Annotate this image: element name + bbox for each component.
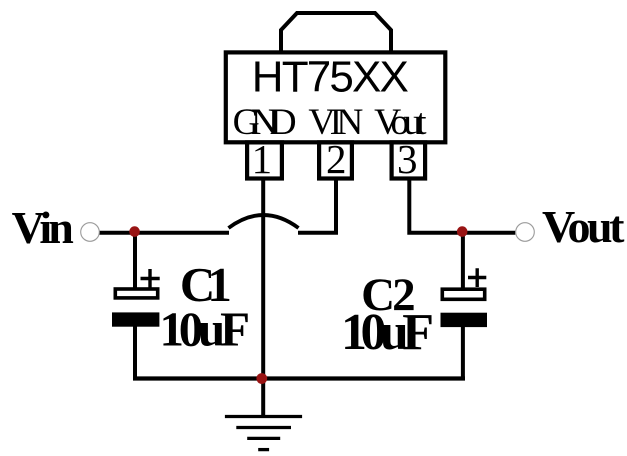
svg-text:10uF: 10uF: [160, 302, 251, 357]
capacitor C1 top plate: [115, 289, 157, 298]
wire C2 top vertical: [461, 232, 465, 290]
terminal Vin circle: [81, 223, 100, 242]
regulator U1 package body: [226, 52, 445, 142]
ground symbol: [225, 417, 302, 450]
svg-text:1: 1: [252, 136, 273, 182]
node junction dot at C2 top: [457, 226, 468, 237]
pin box 1: [247, 142, 282, 178]
svg-text:HT75XX: HT75XX: [252, 53, 409, 102]
pin box 2: [319, 142, 352, 178]
svg-text:Vin: Vin: [12, 202, 74, 253]
svg-text:10uF: 10uF: [341, 304, 434, 361]
capacitor C2 bottom plate: [441, 313, 488, 327]
wire C2 bottom vertical: [461, 327, 465, 379]
pin box 3: [392, 142, 426, 178]
wire pin3 Vout down and right: [409, 179, 515, 233]
capacitor C1 bottom plate: [112, 312, 159, 326]
wire pin2 VIN down and left: [298, 179, 336, 233]
regulator U1 package tab: [281, 13, 391, 53]
wire hop arc over GND wire: [229, 215, 299, 228]
capacitor C2 plus sign: [468, 268, 486, 287]
capacitor C2 top plate: [442, 289, 484, 299]
node junction dot at C1 top: [129, 226, 140, 237]
wire C1 bottom vertical: [133, 326, 137, 379]
terminal Vout circle: [516, 223, 535, 242]
wire Vin horizontal left segment: [100, 231, 230, 235]
svg-text:3: 3: [397, 136, 418, 182]
capacitor C1 plus sign: [141, 269, 160, 288]
wire bottom rail: [133, 376, 465, 380]
wire pin1 GND vertical down to ground: [261, 179, 265, 417]
node junction dot at ground rail: [256, 373, 267, 384]
svg-text:Vout: Vout: [542, 201, 625, 252]
wire C1 top vertical: [133, 232, 137, 290]
svg-text:2: 2: [326, 136, 347, 182]
